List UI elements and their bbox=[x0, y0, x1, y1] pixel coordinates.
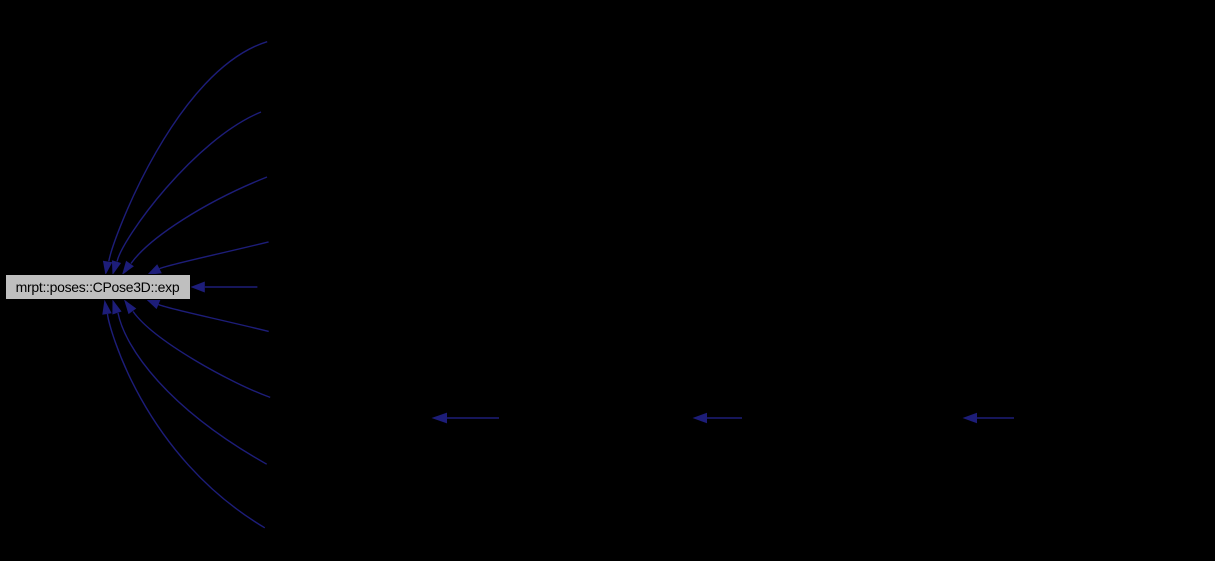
edge caller7 curve bbox=[133, 312, 270, 398]
edge caller2 curve bbox=[117, 112, 261, 261]
chain arrowheads bbox=[432, 413, 978, 424]
arrowhead edge9 bbox=[102, 300, 111, 315]
edge caller8 curve bbox=[118, 313, 267, 464]
edge caller6 curve bbox=[159, 305, 269, 332]
arrowhead edge5 bbox=[191, 282, 205, 293]
arrowhead edge2 bbox=[112, 260, 121, 275]
arrowhead edge4 bbox=[147, 264, 162, 275]
arrowhead edge8 bbox=[112, 300, 121, 315]
edge caller9 curve bbox=[108, 314, 265, 528]
chain arrow lines x432 x693 x963 bbox=[446, 417, 1014, 419]
node box mrpt::poses::CPose3D::exp bbox=[6, 275, 191, 300]
edge caller4 curve bbox=[160, 242, 269, 269]
arrowhead edge3 bbox=[122, 261, 134, 275]
edge caller5 straight line bbox=[205, 286, 258, 288]
svg-text:mrpt::poses::CPose3D::exp: mrpt::poses::CPose3D::exp bbox=[16, 279, 180, 295]
arrowhead edge7 bbox=[124, 300, 136, 315]
arrowhead edge6 bbox=[146, 299, 160, 309]
edge caller1 curve bbox=[109, 42, 267, 262]
arrowhead edge1 bbox=[103, 261, 112, 275]
edge caller3 curve bbox=[131, 177, 267, 264]
